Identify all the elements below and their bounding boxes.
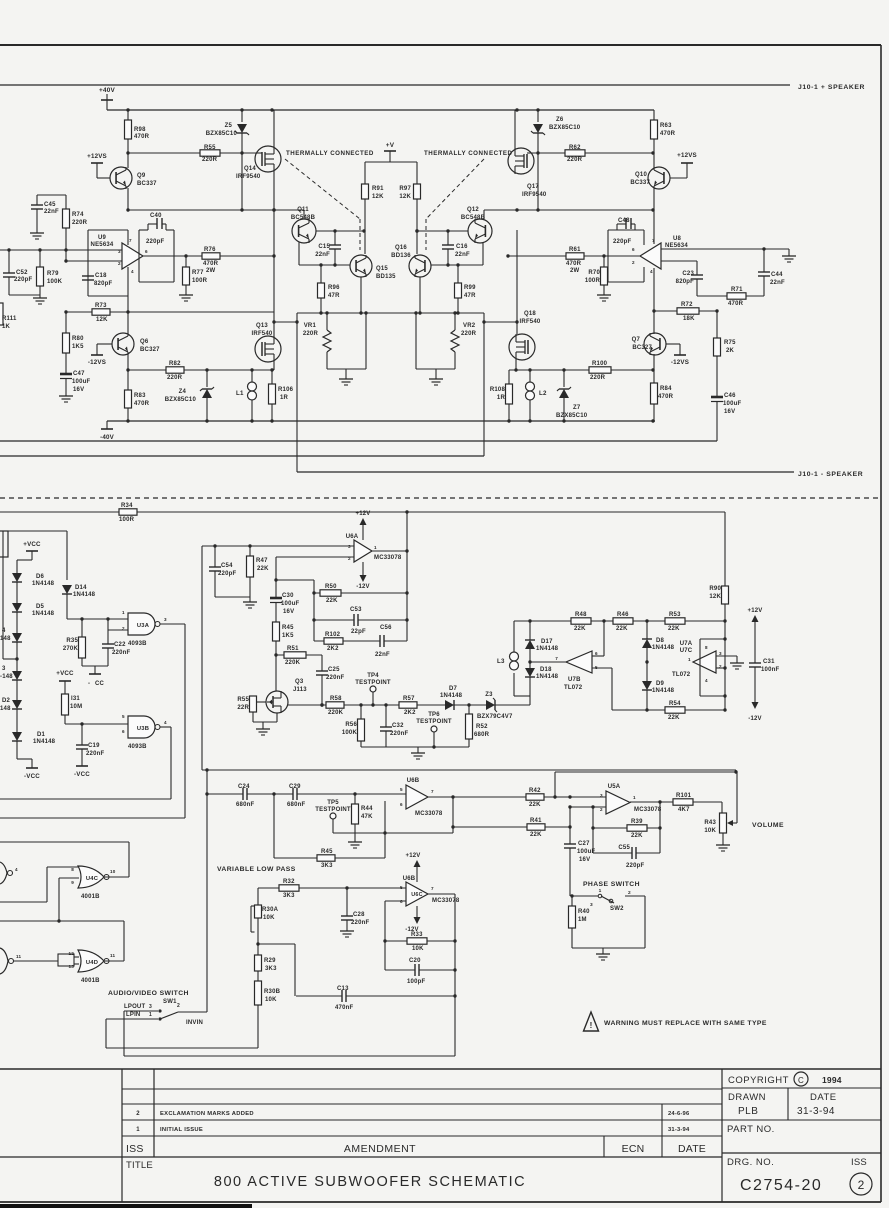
power +VCC [17, 541, 41, 560]
issue circle [850, 1173, 872, 1195]
wire fb line y296 [697, 295, 764, 297]
resistor R46 [613, 612, 633, 632]
node J10-1 - SPEAKER [798, 471, 863, 478]
resistor R97 [399, 184, 420, 254]
resistor R48 [571, 612, 591, 632]
capacitor C28 [340, 888, 369, 937]
power -VCC [17, 759, 40, 780]
testpoint TP6 [416, 712, 452, 747]
capacitor C54 [209, 546, 236, 597]
capacitor C27 [564, 841, 595, 863]
wire U8 pin4 [652, 268, 655, 334]
wire base line right y153 [527, 151, 655, 154]
wire U6B input line [207, 792, 406, 795]
resistor R54 [665, 701, 685, 721]
wire U5A out [630, 801, 722, 803]
power -12V U6A [356, 562, 369, 590]
label drg no [727, 1157, 867, 1168]
wire fb right rail [405, 551, 408, 641]
potentiometer VR1 [303, 311, 368, 385]
title block col1 [121, 1069, 123, 1202]
wire box left [201, 546, 203, 770]
diode D17 [525, 621, 559, 662]
wire U3A input [67, 617, 128, 620]
wire sense right [482, 313, 485, 456]
wire U7B in2 [592, 668, 612, 710]
wire U7A route [700, 637, 727, 697]
sheet right border [880, 45, 882, 1202]
resistor R58 [326, 696, 344, 716]
wire output line y370 left [126, 368, 274, 371]
wire U7A pin2 [716, 666, 727, 669]
capacitor C13 [335, 986, 353, 1011]
wire vcc rail y512 [0, 511, 725, 513]
label phase switch [583, 881, 640, 888]
title block row lines [0, 1089, 722, 1157]
wire U7B out [530, 661, 566, 663]
resistor R34 [119, 503, 137, 523]
wire emitter line left [299, 242, 350, 267]
wire Q17 gate [527, 152, 532, 154]
resistor R102 capacitor C56 [314, 625, 407, 658]
resistor R98 [125, 110, 150, 153]
resistor R30B [255, 981, 281, 1005]
wire U6C out [428, 894, 457, 996]
label title text [214, 1174, 526, 1190]
resistor R100 [589, 361, 611, 381]
diode D3 label [0, 666, 13, 680]
wire SW1 lpin [106, 1019, 258, 1048]
transistor Q15 [350, 255, 396, 280]
capacitor C32 [380, 705, 408, 747]
wire U4C in1 [47, 867, 79, 902]
power +40V [99, 87, 115, 110]
label TITLE [126, 1160, 153, 1171]
warning triangle [584, 1012, 599, 1031]
amendment row 1 [136, 1127, 690, 1133]
zener Z5 [206, 110, 249, 210]
zener Z7 [556, 370, 588, 421]
diode D7 [440, 686, 463, 710]
resistor R42 [526, 788, 544, 808]
resistor R80 [63, 312, 85, 374]
amendment row 2 [136, 1111, 690, 1117]
wire Q13 source [273, 362, 275, 370]
resistor R75 [714, 311, 737, 396]
title block ecn cols [604, 1104, 662, 1157]
label AMENDMENT [344, 1143, 416, 1155]
wire U6C input line [258, 886, 406, 889]
gate U4D [68, 950, 115, 984]
op-amp U6C [400, 876, 460, 906]
capacitor C52 [3, 250, 40, 295]
ground U8 pin3 [782, 249, 796, 262]
transistor Q7 [632, 333, 666, 355]
diode D4 label [0, 628, 11, 642]
wire U8 bias box [608, 230, 644, 282]
resistor R84 [651, 370, 674, 421]
resistor R72 [677, 302, 699, 322]
power +12V U6C [406, 853, 421, 882]
label plb [738, 1106, 835, 1117]
resistor R39 [593, 819, 660, 839]
resistor R52 [466, 705, 490, 747]
resistor R101 [673, 793, 693, 813]
diode D6 label [32, 574, 55, 587]
wire Q17 drain [514, 110, 516, 148]
switch SW2 box [570, 894, 645, 948]
diode chain [12, 560, 22, 759]
capacitor C16 [442, 231, 470, 265]
zener Z4 [165, 370, 214, 421]
wire Q10 emitter [653, 188, 655, 210]
ground SW2 [596, 948, 610, 960]
resistor R31 [62, 694, 83, 724]
wire +V split [365, 162, 417, 184]
resistor R51 [276, 646, 322, 666]
wire Q12 base [415, 229, 468, 232]
op-amp U8 [632, 236, 688, 274]
resistor R99 [455, 265, 477, 315]
capacitor C25 [316, 655, 344, 707]
wire feedback line y312 [64, 310, 274, 313]
diode D8 [642, 621, 675, 662]
label ECN [622, 1143, 645, 1155]
wire -40V rail [107, 419, 655, 422]
wire U4D out [104, 960, 124, 962]
wire U8 pin2 line [661, 260, 697, 262]
resistor R62 [565, 145, 585, 163]
wire bottom bus [124, 996, 455, 1056]
wire line y902 [0, 901, 47, 903]
wire output line y370 right [509, 368, 655, 371]
node J10-1 + SPEAKER [798, 84, 865, 91]
resistor R77 [179, 256, 208, 301]
switch SW1 [124, 1003, 203, 1026]
wire U8 pin7 [653, 210, 655, 244]
title block outer [0, 1068, 881, 1070]
resistor R35 [63, 619, 86, 666]
diode D2 label [0, 698, 11, 712]
resistor R76 [202, 247, 220, 274]
wire U4C riser [128, 842, 130, 877]
wire U8 output [506, 254, 640, 257]
op-amp U9 [91, 235, 148, 274]
resistor R47 [247, 546, 270, 597]
wire SW1 lpout [124, 1011, 158, 1056]
zener Z3 [477, 692, 513, 720]
resistor R33 [385, 932, 455, 952]
inductor L3 [497, 621, 519, 670]
ground Q3 [253, 713, 277, 735]
capacitor C24 [236, 784, 254, 808]
resistor R90 [709, 512, 728, 621]
wire Q13 gate feed [272, 320, 297, 323]
wire C13 line [296, 994, 457, 997]
op-amp U7A [672, 641, 722, 683]
wire fb line y710 [612, 708, 727, 711]
resistor R71 [727, 287, 746, 307]
op-amp U6A [346, 534, 402, 562]
wire out line y799 [0, 798, 171, 800]
power -40V [100, 421, 115, 441]
label warning [604, 1020, 767, 1027]
wire Q15 emitter [359, 277, 362, 315]
wire U6A pin2 [276, 556, 354, 558]
power -12VS right [666, 344, 689, 366]
resistor R83 [125, 370, 150, 421]
wire Q10 collector [653, 153, 655, 168]
wire Q11 base [316, 229, 366, 232]
resistor R79 [33, 250, 63, 304]
capacitor C53 [314, 607, 407, 635]
capacitor C23 [676, 261, 703, 296]
resistor R70 [585, 256, 611, 301]
wire Q14 drain [273, 110, 275, 146]
wire volume wiper [555, 772, 737, 823]
label thermally connected left [286, 150, 374, 157]
wire base line y153 [126, 151, 257, 154]
wire U9 bias box [88, 230, 128, 312]
wire Q16 emitter [418, 277, 421, 315]
gate U3A [122, 610, 167, 647]
wire Q6 emitter [127, 354, 129, 370]
label part no [727, 1124, 775, 1135]
wire U5A pin2 line [568, 805, 606, 896]
wire -speaker line [297, 471, 794, 473]
transistor Q10 [630, 167, 670, 189]
wire lower join [361, 745, 469, 759]
power +12VS right [670, 152, 697, 178]
resistor R91 [362, 184, 385, 254]
transistor Q6 [112, 333, 160, 355]
wire Q12 collector [483, 210, 485, 219]
power +12VS [87, 153, 110, 178]
wire R90 lower [724, 621, 726, 710]
wire to L3 [500, 673, 530, 705]
power -12VS left [88, 344, 112, 366]
connector cut left [0, 531, 8, 557]
wire line y840 [0, 841, 129, 843]
wire U4D input [13, 954, 79, 966]
wire out line y818 [0, 817, 185, 819]
wire CC net [82, 666, 108, 687]
wire Q7 emitter [653, 354, 655, 370]
power +VCC 2 [56, 670, 74, 694]
resistor R55 [200, 145, 220, 163]
resistor R30A [251, 905, 279, 932]
wire U4C in2 [57, 878, 79, 923]
wire U7A plus [645, 660, 694, 663]
wire fb line y311 right [654, 309, 719, 312]
wire input branch y531 [0, 531, 67, 580]
gate stub upper left [0, 862, 18, 884]
wire U5A fb box [591, 800, 661, 853]
capacitor C46 [711, 393, 741, 441]
resistor R29 [255, 955, 278, 972]
capacitor C15 [315, 231, 341, 265]
capacitor C45 [30, 195, 66, 239]
capacitor C19 [76, 724, 104, 766]
wire U6A out [372, 549, 409, 552]
wire Q9 collector [127, 153, 129, 168]
transistor Q11 [291, 207, 316, 243]
transistor Q3 [266, 679, 307, 713]
wire box bottom [202, 769, 736, 771]
wire U6A fb riser [276, 557, 316, 641]
capacitor C20 [385, 958, 455, 985]
wire mid tap [258, 944, 295, 996]
gate U3B [122, 714, 167, 750]
op-amp U5A [600, 784, 662, 814]
power +V [384, 142, 396, 162]
wire U4C out [104, 876, 129, 878]
capacitor C18 [82, 273, 112, 287]
wire Q6 collector [127, 312, 129, 334]
title block right box [722, 1069, 881, 1202]
resistor R73 [92, 303, 110, 323]
power +12V C31 [748, 608, 763, 663]
transistor Q18 [509, 311, 541, 360]
transistor Q13 [252, 323, 281, 362]
power -VCC 2 [74, 771, 90, 778]
capacitor C40 feedback box [139, 213, 174, 282]
capacitor C22 [102, 630, 130, 666]
label variable low pass [217, 866, 296, 873]
wire U6B out [428, 795, 606, 798]
resistor R45b [273, 622, 295, 691]
label DATE [678, 1143, 706, 1155]
wire U7A pin3 gnd [716, 656, 744, 669]
inductor L2 [526, 370, 547, 421]
zener Z6 [531, 110, 581, 210]
wire Q18 drain [516, 230, 518, 334]
resistor R55b [237, 696, 266, 722]
op-amp U6B [400, 778, 443, 817]
wire thermal dashed left [285, 159, 360, 250]
transistor Q12 [461, 207, 492, 243]
op-amp U7B [555, 651, 598, 691]
transistor Q17 [508, 148, 547, 198]
wire U6B fb [333, 797, 453, 858]
wire U3B output [160, 727, 171, 799]
resistor R44 [348, 794, 373, 848]
gate U4C [71, 866, 116, 900]
wire U3B input [65, 722, 128, 725]
wire bus line B [0, 455, 484, 457]
wire Q14 gate [257, 152, 262, 154]
wire U9 output [143, 254, 274, 257]
wire lp ladder [256, 888, 259, 1048]
resistor R61 [566, 247, 584, 274]
resistor R57 [399, 696, 417, 716]
wire U3A output [160, 624, 185, 818]
resistor R108 [490, 370, 513, 421]
wire Q18 source [515, 360, 517, 370]
title block col2 [153, 1069, 155, 1157]
wire +speaker line [0, 84, 790, 86]
resistor R32 [279, 879, 299, 899]
wire U7B in1 [592, 621, 604, 656]
diode D5 label [32, 604, 55, 617]
capacitor C31 [749, 659, 779, 702]
scanner edge artifact [0, 1204, 252, 1208]
wire U6B fb2 [274, 794, 385, 858]
potentiometer R43 VOLUME [704, 802, 784, 851]
wire ladder tap [3, 531, 17, 659]
gate stub left [0, 948, 22, 974]
wire Q18 gate feed [484, 320, 519, 323]
diode D1 label [33, 732, 56, 745]
wire inverting line [64, 259, 122, 262]
capacitor C44 [758, 249, 785, 296]
resistor R50 [314, 584, 407, 604]
resistor R63 [651, 110, 676, 153]
label audio video switch [108, 990, 189, 1005]
diode D18 [525, 660, 559, 696]
resistor R82 [166, 361, 184, 381]
power -12V U6C [405, 906, 420, 933]
label drawing number [740, 1177, 822, 1194]
label thermally connected right [424, 150, 513, 157]
label copyright [728, 1072, 842, 1086]
capacitor C48 feedback [613, 218, 635, 245]
wire thermal dashed right [426, 159, 484, 250]
transistor Q16 [391, 245, 431, 277]
section divider dashed line [0, 497, 881, 499]
transistor Q14 [236, 146, 281, 180]
wire gnd join [215, 597, 257, 608]
wire sense left [295, 313, 298, 472]
wire Q9 emitter [127, 188, 129, 210]
wire driver line y210 [126, 208, 654, 211]
wire R41 branch [451, 825, 571, 828]
wire Q14 source [272, 172, 275, 337]
wire U8 pin3 line [661, 247, 789, 250]
wire box drop [205, 768, 208, 1012]
resistor R53 [665, 612, 685, 632]
wire line y923 [0, 920, 124, 922]
sheet bottom border [0, 1201, 881, 1203]
wire input line [0, 248, 122, 251]
resistor R56 [342, 705, 365, 747]
wire Q11 collector [303, 210, 305, 219]
capacitor C55 [618, 845, 644, 869]
wire Q12 emitter [482, 242, 484, 265]
label drawn [728, 1092, 837, 1103]
potentiometer VR2 [414, 311, 476, 385]
wire SW1 common [178, 1011, 207, 1013]
testpoint TP4 [355, 673, 391, 705]
wire output mid line [297, 312, 484, 314]
capacitor C47 [59, 371, 90, 402]
power +12V U6A [356, 511, 371, 540]
resistor R40 [569, 906, 591, 928]
transistor Q9 [110, 110, 157, 189]
resistor R74 [63, 195, 88, 261]
resistor R41 [527, 818, 545, 838]
wire U4D riser [123, 921, 125, 961]
wire U3A pin2 [108, 619, 128, 630]
resistor R111 [0, 303, 17, 330]
testpoint TP5 [315, 800, 351, 833]
diode D14 [62, 585, 96, 619]
wire filter line y621 [514, 619, 727, 622]
wire main signal line [288, 703, 530, 706]
resistor R106 [269, 370, 294, 421]
wire +40V rail [107, 108, 654, 111]
label ISS [126, 1143, 144, 1155]
